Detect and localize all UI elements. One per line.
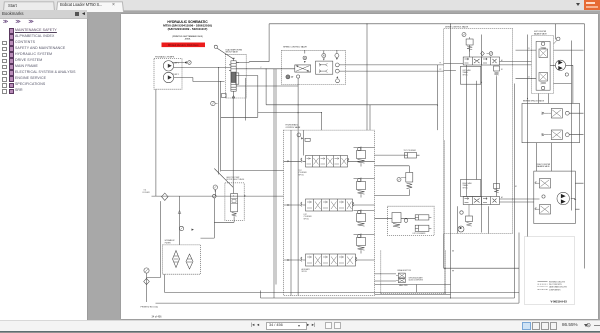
left counterbalance valve (515, 31, 560, 93)
left drive motor M1 (555, 60, 573, 103)
svg-text:FEMALE BUTTON: FEMALE BUTTON (397, 269, 411, 272)
wire drive column (481, 23, 571, 236)
svg-text:-6908-: -6908- (184, 38, 191, 40)
svg-text:LEFT COUNTER: LEFT COUNTER (533, 31, 546, 33)
svg-text:PILOT CIRCUITS: PILOT CIRCUITS (549, 284, 562, 286)
right drive motor M2 (557, 192, 576, 204)
relief R1 (353, 146, 374, 166)
dropdown caret (576, 3, 580, 6)
oil cooler (142, 189, 168, 200)
drive pump motor (458, 226, 464, 232)
tank symbol (221, 93, 226, 97)
svg-text:AUXILIARY: AUXILIARY (301, 268, 310, 271)
svg-text:A1: A1 (501, 59, 503, 62)
hydraulic filter (162, 210, 200, 274)
right travel spool (460, 179, 499, 204)
svg-text:C1: C1 (528, 48, 530, 50)
right zoom cluster (522, 322, 531, 330)
quick couplers (374, 250, 445, 293)
schematic frame (155, 23, 584, 302)
svg-text:RIGHT COUNTER: RIGHT COUNTER (536, 163, 550, 165)
gauge port mid (210, 101, 217, 105)
auxiliary spool (283, 254, 374, 273)
wire dashed boundary (443, 140, 445, 293)
speed control valve (281, 45, 345, 129)
svg-text:SPEED CONTROL VALVE: SPEED CONTROL VALVE (283, 45, 307, 48)
solenoid valve tilt (374, 165, 412, 195)
wire select to speed valve (236, 23, 298, 85)
node feed arrows (287, 137, 303, 261)
wire select valve riser (218, 67, 245, 187)
wire top pilot line drop (367, 23, 370, 129)
travel relief (493, 66, 499, 77)
left travel spool (460, 57, 499, 84)
wire counterbalance stubs (443, 63, 514, 268)
svg-text:CONTROL VALVE: CONTROL VALVE (285, 125, 301, 128)
svg-text:LIFT CYLINDERS: LIFT CYLINDERS (412, 233, 425, 235)
svg-text:PRINTED IN U.S.A.: PRINTED IN U.S.A. (140, 305, 158, 308)
wire bottom right bus (164, 23, 519, 297)
svg-text:B1: B1 (501, 69, 503, 71)
bookmark list (0, 26, 87, 28)
check valve return (143, 278, 149, 284)
check arrow at pump outlet (184, 61, 187, 64)
svg-text:(S/N 522411009 - 522411117): (S/N 522411009 - 522411117) (167, 27, 207, 31)
svg-text:P1: P1 (439, 62, 441, 64)
svg-text:CHECK AUXILIARY: CHECK AUXILIARY (408, 276, 423, 279)
internal supply risers (291, 130, 304, 295)
svg-text:HYDRAULIC PUMPS: HYDRAULIC PUMPS (155, 55, 175, 58)
svg-text:B2: B2 (515, 186, 517, 188)
svg-text:GEROTOR PUMP: GEROTOR PUMP (226, 177, 239, 179)
lift cylinders box (374, 206, 434, 235)
svg-text:34 of 456: 34 of 456 (151, 315, 162, 318)
svg-text:SPOOL: SPOOL (298, 174, 304, 176)
page (121, 14, 598, 320)
svg-text:CYLINDER: CYLINDER (303, 216, 312, 218)
schematic SVG (118, 14, 598, 320)
relief R3 (353, 209, 374, 226)
lift spool (283, 199, 374, 220)
right travel relief (493, 183, 499, 192)
legend (537, 281, 566, 291)
svg-text:CYLINDER: CYLINDER (298, 172, 307, 174)
svg-text:LEFT HAND: LEFT HAND (462, 69, 471, 72)
pump P1 (163, 60, 179, 70)
pump P2 (163, 72, 179, 82)
travel gauge (486, 51, 492, 55)
svg-text:QUICK COUPLERS: QUICK COUPLERS (408, 279, 422, 281)
bookmarks panel (0, 19, 88, 321)
nav cluster (251, 322, 259, 328)
tilt spool (283, 155, 374, 176)
svg-text:SPOOL: SPOOL (303, 218, 309, 220)
travel check diamond (480, 51, 484, 55)
svg-text:C2: C2 (528, 76, 530, 78)
reverse spin-out valve (522, 99, 580, 142)
svg-text:V-09219-9-03: V-09219-9-03 (550, 299, 567, 303)
red highlight link box (161, 42, 205, 47)
tab bar (0, 0, 600, 11)
svg-text:SELECT VALVE: SELECT VALVE (225, 50, 238, 53)
gauge with arrow (213, 185, 217, 192)
gauge circle top (297, 133, 310, 141)
svg-text:(PRINTED SEPTEMBER 2003): (PRINTED SEPTEMBER 2003) (172, 35, 203, 37)
svg-text:P: P (260, 67, 261, 69)
title text block (163, 20, 212, 41)
svg-text:PUMP 1: PUMP 1 (172, 62, 178, 64)
relief valve bottom (gerotor select) (200, 168, 246, 238)
drive relief top (462, 32, 473, 51)
svg-text:WORKING CIRCUITS: WORKING CIRCUITS (549, 281, 565, 283)
tab Bobcat active (56, 1, 124, 11)
wire drive interior (457, 45, 496, 234)
dual shaft worm select valve (225, 48, 246, 98)
port labels (260, 48, 530, 199)
status bar (0, 320, 600, 332)
panel toolbar icons (3, 19, 8, 25)
right counterbalance valve (533, 163, 575, 223)
gauge port circle (187, 60, 191, 64)
hydrostatic control valve box (283, 130, 374, 295)
svg-text:COOLER: COOLER (142, 192, 150, 194)
svg-text:COMPONENTS: COMPONENTS (549, 289, 560, 291)
relief R2 (353, 177, 374, 197)
svg-text:DRIVE CONTROL VALVE: DRIVE CONTROL VALVE (445, 25, 469, 28)
svg-text:SPOOL: SPOOL (462, 74, 467, 76)
node pilot port circle (214, 45, 217, 48)
legend light box (524, 236, 574, 304)
svg-text:RIGHT HAND: RIGHT HAND (462, 182, 472, 185)
svg-text:REVERSE SPIN-OUT VALVE: REVERSE SPIN-OUT VALVE (522, 99, 543, 102)
svg-text:P2: P2 (439, 69, 441, 71)
gauge circle return (143, 267, 148, 272)
svg-text:SPOOL: SPOOL (301, 271, 307, 273)
wire mid manifold (220, 68, 437, 297)
svg-text:A2: A2 (501, 196, 503, 199)
svg-text:Printed Version: Click Here: Printed Version: Click Here (167, 44, 198, 47)
wire speed valve to drive valve (339, 64, 443, 129)
hydraulic pumps box (154, 55, 182, 89)
orange app button (584, 0, 600, 10)
svg-text:LIFT: LIFT (303, 214, 306, 216)
svg-text:SPOOL: SPOOL (462, 187, 467, 189)
bookmarks header (0, 10, 87, 19)
wire counterbalance links (499, 50, 583, 209)
wire pilot diagonal (216, 48, 233, 59)
wire bottom return line (146, 89, 283, 302)
svg-text:TILT: TILT (298, 170, 301, 172)
wire pump outputs (173, 62, 230, 81)
svg-text:TILT CYLINDER: TILT CYLINDER (403, 150, 416, 152)
svg-text:CASE DRAIN CIRCUITS: CASE DRAIN CIRCUITS (549, 285, 567, 288)
tab Start (3, 1, 55, 11)
svg-text:PUMP 2: PUMP 2 (172, 74, 178, 76)
bottom strip (0, 331, 600, 333)
relief R4 (353, 233, 374, 253)
tilt cylinder (374, 150, 419, 158)
svg-text:FILTER: FILTER (164, 242, 170, 244)
